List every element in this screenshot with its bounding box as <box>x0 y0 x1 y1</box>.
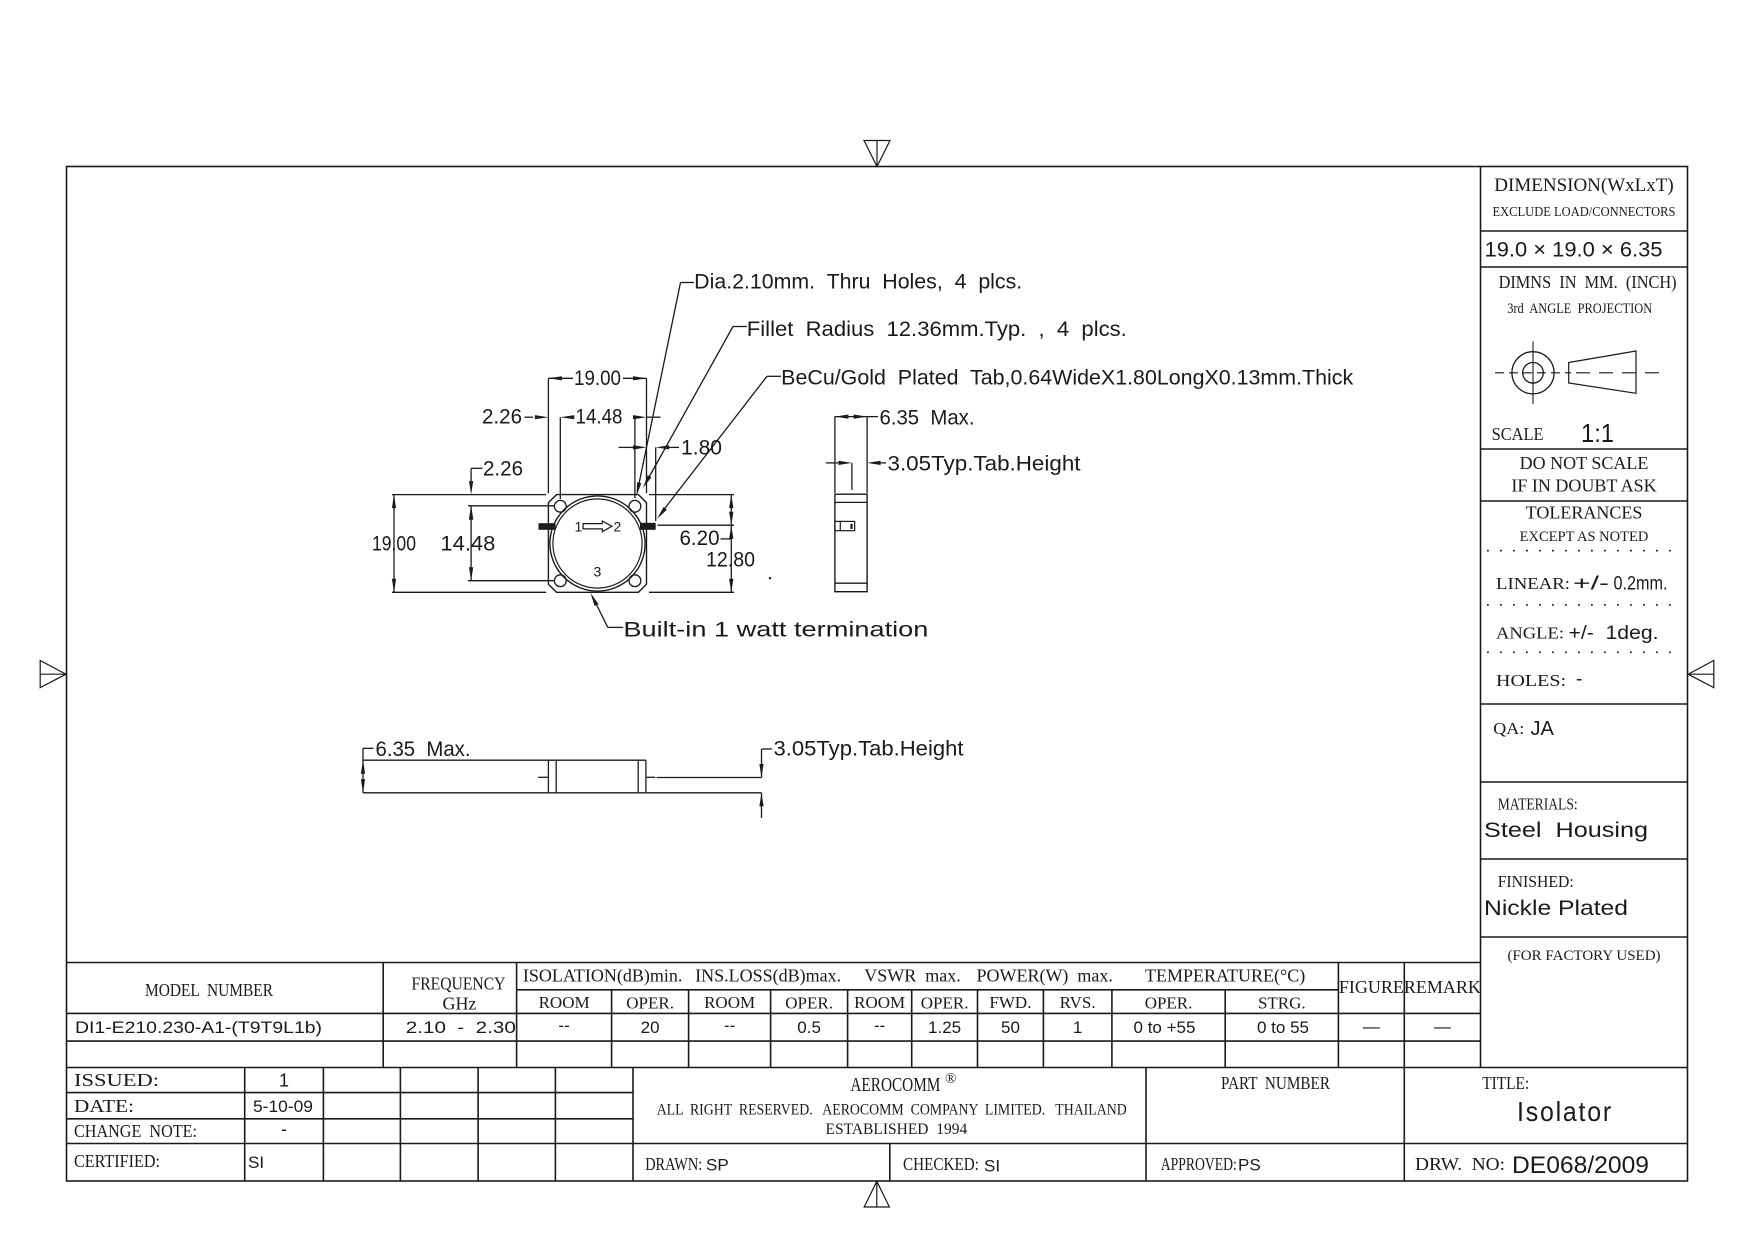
svg-text:2.26: 2.26 <box>482 406 522 429</box>
svg-text:TITLE:: TITLE: <box>1482 1073 1529 1093</box>
port 2 tab (right, filled) <box>640 523 656 530</box>
panel divider <box>1481 858 1688 860</box>
svg-text:—: — <box>1434 1017 1451 1036</box>
svg-text:DI1-E210.230-A1-(T9T9L1b): DI1-E210.230-A1-(T9T9L1b) <box>75 1018 322 1037</box>
svg-text:FINISHED:: FINISHED: <box>1498 872 1574 891</box>
svg-text:1: 1 <box>1073 1018 1082 1037</box>
panel divider <box>1481 230 1688 232</box>
svg-text:BeCu/Gold Plated Tab,0.64Wid: BeCu/Gold Plated Tab,0.64WideX1.80LongX0… <box>781 367 1354 390</box>
svg-text:3.05Typ.Tab.Height: 3.05Typ.Tab.Height <box>774 738 964 761</box>
svg-text:-: - <box>281 1119 287 1139</box>
mounting hole top-right <box>629 500 641 512</box>
svg-text:JA: JA <box>1531 718 1555 740</box>
svg-text:HOLES:: HOLES: <box>1496 671 1566 690</box>
leader: fillet radius note <box>733 326 747 328</box>
svg-text:CERTIFIED:: CERTIFIED: <box>74 1151 160 1171</box>
svg-text:19.00: 19.00 <box>372 533 416 556</box>
svg-text:14.48: 14.48 <box>576 406 623 429</box>
mounting hole bottom-left <box>554 575 566 587</box>
svg-text:PART NUMBER: PART NUMBER <box>1221 1073 1330 1093</box>
svg-text:1: 1 <box>279 1071 289 1091</box>
dim 12.80 right <box>729 525 733 539</box>
svg-text:Dia.2.10mm. Thru Holes, 4: Dia.2.10mm. Thru Holes, 4 plcs. <box>694 271 1022 294</box>
bottom side view plate <box>363 759 646 761</box>
svg-text:OPER.: OPER. <box>785 994 833 1013</box>
svg-text:ANGLE:: ANGLE: <box>1496 624 1564 643</box>
svg-text:20: 20 <box>641 1018 660 1037</box>
bottom center registration triangle <box>864 1181 889 1207</box>
dim 3.05 (bottom view) <box>761 749 763 778</box>
svg-text:EXCLUDE LOAD/CONNECTORS: EXCLUDE LOAD/CONNECTORS <box>1493 205 1676 220</box>
svg-text:3: 3 <box>594 564 602 580</box>
svg-text:2.10 - 2.30: 2.10 - 2.30 <box>406 1018 516 1037</box>
svg-text:3.05Typ.Tab.Height: 3.05Typ.Tab.Height <box>888 452 1081 475</box>
leader: termination note <box>608 626 623 628</box>
svg-text:1.25: 1.25 <box>928 1018 961 1037</box>
svg-text:DO NOT SCALE: DO NOT SCALE <box>1520 453 1649 473</box>
svg-text:OPER.: OPER. <box>626 994 674 1013</box>
svg-text:14.48: 14.48 <box>440 533 495 556</box>
svg-text:ESTABLISHED 1994: ESTABLISHED 1994 <box>826 1121 968 1138</box>
mounting hole top-left <box>554 500 566 512</box>
svg-text:DRW. NO:: DRW. NO: <box>1415 1154 1505 1174</box>
flange outline (chamfered square) <box>548 495 646 593</box>
svg-text:SP: SP <box>706 1156 729 1175</box>
svg-text:1:1: 1:1 <box>1581 418 1614 448</box>
panel divider <box>1481 266 1688 268</box>
body inner circle <box>553 499 642 588</box>
svg-text:CHANGE NOTE:: CHANGE NOTE: <box>74 1121 197 1141</box>
svg-text:+/- 1deg.: +/- 1deg. <box>1569 623 1659 644</box>
svg-text:2: 2 <box>614 519 622 535</box>
svg-text:--: -- <box>724 1016 735 1035</box>
svg-text:0 to 55: 0 to 55 <box>1257 1018 1309 1037</box>
svg-text:®: ® <box>945 1071 956 1087</box>
stray point <box>769 577 771 579</box>
dim 19.00 left <box>392 494 546 496</box>
dotted separator <box>1487 651 1681 653</box>
svg-text:SI: SI <box>984 1157 1000 1176</box>
svg-text:TOLERANCES: TOLERANCES <box>1526 503 1643 523</box>
right registration triangle <box>1688 661 1714 688</box>
svg-text:DATE:: DATE: <box>74 1096 134 1116</box>
svg-text:2.26: 2.26 <box>483 458 523 481</box>
projection symbol: circle with crosshair <box>1512 352 1554 394</box>
svg-text:19.0 × 19.0 × 6.35: 19.0 × 19.0 × 6.35 <box>1485 239 1663 262</box>
flow arrow 1 to 2 <box>583 521 612 532</box>
svg-text:+/-: +/- <box>1573 574 1609 595</box>
svg-text:--: -- <box>558 1016 569 1035</box>
svg-text:Nickle Plated: Nickle Plated <box>1484 897 1628 920</box>
svg-text:DRAWN:: DRAWN: <box>645 1154 702 1174</box>
svg-text:Built-in 1 watt termination: Built-in 1 watt termination <box>623 619 928 642</box>
port 1 tab (left, filled) <box>539 523 556 530</box>
panel divider <box>1481 500 1688 502</box>
dim 3.05 (right view) <box>826 462 838 464</box>
svg-text:6.35 Max.: 6.35 Max. <box>880 406 975 429</box>
svg-text:INS.LOSS(dB)max.: INS.LOSS(dB)max. <box>695 966 841 987</box>
svg-text:3rd ANGLE PROJECTION: 3rd ANGLE PROJECTION <box>1507 301 1652 317</box>
dim 2.26 left vertical <box>471 467 482 469</box>
svg-text:0 to +55: 0 to +55 <box>1134 1018 1196 1037</box>
svg-text:ROOM: ROOM <box>539 993 590 1012</box>
projection symbol: cone frustum <box>1569 351 1636 393</box>
svg-text:IF IN DOUBT ASK: IF IN DOUBT ASK <box>1511 476 1656 496</box>
svg-text:DE068/2009: DE068/2009 <box>1512 1152 1649 1179</box>
svg-text:SCALE: SCALE <box>1492 424 1544 444</box>
bottom side view body section <box>547 760 549 793</box>
bottom side view tabs <box>538 776 548 778</box>
dim 19.00 top <box>547 378 549 493</box>
dotted separator <box>1487 550 1681 552</box>
svg-text:DIMENSION(WxLxT): DIMENSION(WxLxT) <box>1494 175 1673 196</box>
svg-text:STRG.: STRG. <box>1258 994 1306 1013</box>
svg-text:EXCEPT AS NOTED: EXCEPT AS NOTED <box>1520 529 1649 545</box>
svg-text:6.35 Max.: 6.35 Max. <box>376 738 471 761</box>
svg-text:1: 1 <box>575 519 583 535</box>
title block vertical lines <box>244 1068 246 1182</box>
svg-text:1.80: 1.80 <box>681 437 722 460</box>
panel divider <box>1481 448 1688 450</box>
svg-text:MODEL NUMBER: MODEL NUMBER <box>145 980 273 1000</box>
svg-text:19.00: 19.00 <box>574 367 621 390</box>
svg-text:Steel Housing: Steel Housing <box>1484 819 1648 842</box>
panel divider <box>1481 703 1688 705</box>
svg-text:ISSUED:: ISSUED: <box>74 1070 159 1090</box>
svg-text:0.2mm.: 0.2mm. <box>1614 574 1668 595</box>
side view tab box <box>835 521 855 530</box>
svg-text:SI: SI <box>248 1153 264 1172</box>
svg-text:Fillet Radius 12.36mm.Typ.: Fillet Radius 12.36mm.Typ. , 4 plcs. <box>747 318 1127 341</box>
leader: thru holes note <box>681 282 695 284</box>
title block horizontal lines <box>67 1067 1688 1069</box>
svg-text:TEMPERATURE(°C): TEMPERATURE(°C) <box>1145 966 1305 987</box>
svg-text:RVS.: RVS. <box>1060 993 1096 1012</box>
svg-text:FREQUENCY: FREQUENCY <box>412 974 506 994</box>
svg-text:6.20: 6.20 <box>680 527 720 550</box>
leader: BeCu tab note <box>767 375 781 377</box>
svg-text:—: — <box>1363 1017 1380 1036</box>
dim 6.20 right <box>649 494 734 496</box>
svg-text:MATERIALS:: MATERIALS: <box>1498 795 1578 814</box>
top center registration triangle <box>864 141 890 167</box>
svg-text:QA:: QA: <box>1493 719 1524 738</box>
side view body (right) <box>835 494 867 592</box>
svg-text:--: -- <box>874 1016 885 1035</box>
svg-text:VSWR max.: VSWR max. <box>864 966 961 986</box>
dotted separator <box>1487 604 1681 606</box>
svg-text:ROOM: ROOM <box>704 993 755 1012</box>
svg-text:PS: PS <box>1238 1156 1261 1175</box>
dim 14.48 left <box>468 505 554 507</box>
dim 1.80 <box>655 447 657 521</box>
svg-text:ROOM: ROOM <box>854 993 905 1012</box>
svg-text:OPER.: OPER. <box>921 994 969 1013</box>
svg-text:-: - <box>1576 669 1582 690</box>
body outer circle <box>550 496 645 591</box>
panel divider <box>1481 781 1688 783</box>
svg-text:APPROVED:: APPROVED: <box>1161 1154 1237 1174</box>
panel divider <box>1481 936 1688 938</box>
svg-text:CHECKED:: CHECKED: <box>903 1154 979 1174</box>
svg-text:ALL RIGHT RESERVED. AEROCO: ALL RIGHT RESERVED. AEROCOMM COMPANY LIM… <box>657 1102 1127 1119</box>
left registration triangle <box>40 661 66 688</box>
svg-text:FIGURE: FIGURE <box>1339 977 1404 997</box>
info panel left border <box>1480 167 1482 1068</box>
dim 2.26 top <box>559 417 561 499</box>
dim 6.35 Max (right view) <box>834 417 836 493</box>
svg-text:FWD.: FWD. <box>989 993 1031 1012</box>
svg-text:50: 50 <box>1001 1018 1020 1037</box>
sheet border frame <box>67 167 1688 1182</box>
dim 6.35 Max (bottom view) <box>363 747 374 749</box>
svg-text:12.80: 12.80 <box>706 549 755 572</box>
spec table horizontal lines <box>67 962 1481 964</box>
svg-text:POWER(W) max.: POWER(W) max. <box>976 966 1112 987</box>
svg-text:DIMNS IN MM. (INCH): DIMNS IN MM. (INCH) <box>1499 272 1677 293</box>
svg-text:(FOR FACTORY USED): (FOR FACTORY USED) <box>1507 948 1660 964</box>
svg-text:0.5: 0.5 <box>797 1018 821 1037</box>
svg-text:5-10-09: 5-10-09 <box>253 1097 313 1116</box>
svg-text:REMARK: REMARK <box>1404 977 1481 997</box>
svg-text:OPER.: OPER. <box>1145 994 1193 1013</box>
spec table vertical lines <box>382 963 384 1068</box>
svg-text:ISOLATION(dB)min.: ISOLATION(dB)min. <box>523 966 683 987</box>
svg-text:LINEAR:: LINEAR: <box>1496 574 1570 593</box>
svg-text:AEROCOMM: AEROCOMM <box>850 1074 940 1096</box>
svg-text:GHz: GHz <box>443 994 477 1014</box>
svg-text:Isolator: Isolator <box>1517 1096 1613 1127</box>
mounting hole bottom-right <box>629 575 641 587</box>
